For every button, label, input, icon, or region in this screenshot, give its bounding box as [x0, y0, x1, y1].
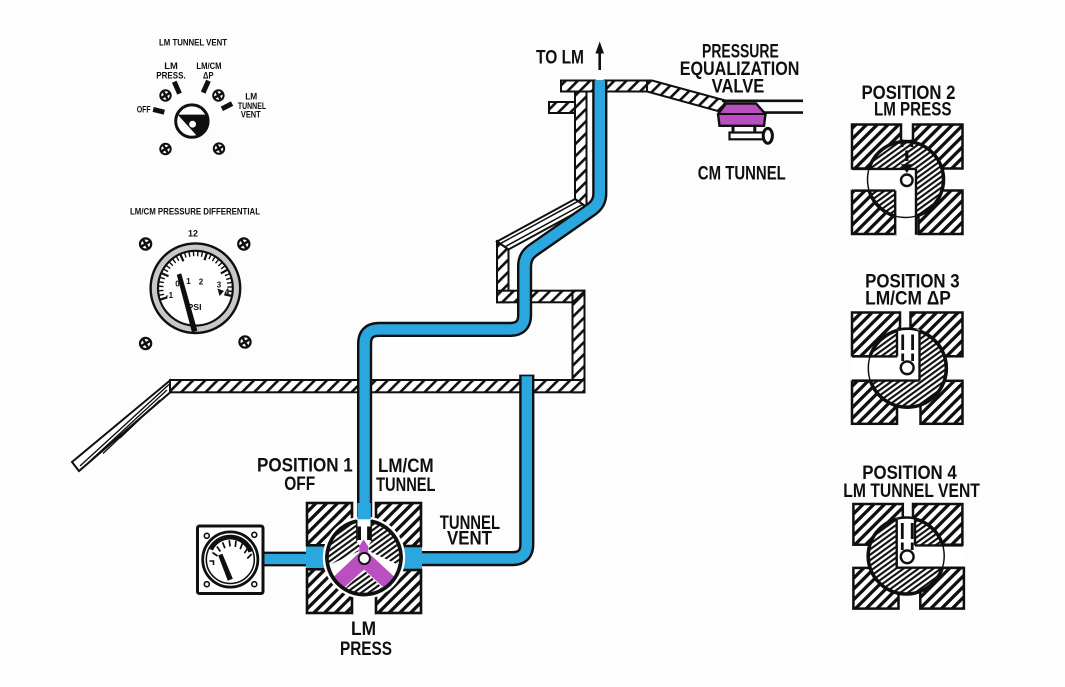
svg-text:PSI: PSI [188, 302, 202, 312]
dashed sensing lines [901, 523, 904, 539]
corner hole top-left [204, 533, 209, 538]
valve body magenta [718, 104, 766, 126]
block bottom-right [921, 381, 963, 424]
port dot [901, 361, 914, 374]
svg-text:1: 1 [186, 277, 191, 286]
body block bottom-right [376, 570, 421, 613]
passage boundary lines [852, 331, 920, 381]
svg-text:PRESS.: PRESS. [156, 70, 186, 81]
block bottom-right [919, 191, 963, 235]
white L passage horizontal arm [851, 170, 916, 190]
upper vertical tunnel wall [575, 92, 587, 208]
svg-text:OFF: OFF [284, 474, 315, 495]
screw top-right [238, 238, 249, 249]
rotor hatch bottom wedge [345, 570, 384, 595]
white passage vertical channel [897, 330, 920, 358]
right port blue [400, 546, 422, 570]
tunnel vent pipe blue [418, 376, 527, 558]
TO LM arrow [598, 51, 601, 70]
rotor circle [868, 329, 946, 407]
white L passage vertical arm [895, 190, 916, 235]
dashed sensing lines [901, 335, 904, 351]
knob pointer wedge [178, 115, 209, 137]
svg-text:VENT: VENT [241, 110, 261, 121]
svg-text:LM/CM: LM/CM [378, 456, 434, 477]
block bottom-right [920, 568, 964, 609]
screw top-left [160, 90, 170, 100]
passage boundary lines [897, 518, 963, 568]
block top-right [913, 504, 962, 545]
svg-text:-1: -1 [166, 291, 174, 300]
small flange tab [549, 102, 577, 113]
svg-text:PRESS: PRESS [340, 639, 392, 660]
screw bottom-left [140, 338, 151, 349]
body block bottom-left [307, 569, 352, 613]
gauge inner rim [158, 251, 233, 326]
valve body mid line [718, 113, 766, 115]
top-left flange wall [561, 81, 595, 92]
svg-text:TUNNEL: TUNNEL [376, 475, 436, 496]
left diagonal wing [72, 381, 170, 472]
rotor circle [327, 521, 401, 595]
svg-text:3: 3 [217, 281, 222, 290]
magenta rotor passage [333, 540, 395, 589]
main LM/CM tunnel pipe outline [365, 80, 600, 518]
svg-text:4: 4 [225, 288, 230, 297]
block top-right [913, 125, 963, 169]
dial outer circle [203, 532, 258, 587]
svg-text:LM TUNNEL VENT: LM TUNNEL VENT [159, 37, 227, 48]
gauge outer rim [151, 243, 241, 333]
gauge bezel gray ring [154, 247, 236, 329]
svg-text:VENT: VENT [447, 528, 492, 549]
top-right flange wall [605, 81, 648, 92]
svg-text:LM/CM ΔP: LM/CM ΔP [865, 289, 951, 310]
rotor ring restroke [327, 521, 401, 594]
block top-left [853, 504, 902, 545]
small tick mark left [210, 561, 214, 565]
block top-left [852, 313, 900, 357]
small gauge needle [218, 554, 233, 581]
setpoint marker near 4 [218, 289, 225, 297]
tunnel vent pipe outline [418, 375, 527, 559]
bracket legs [732, 126, 735, 133]
rotor center dot [359, 553, 370, 564]
rotary knob [176, 105, 208, 137]
thin rotor outline over passage [868, 142, 944, 218]
block top-left [852, 125, 901, 169]
svg-text:CM TUNNEL: CM TUNNEL [698, 163, 786, 184]
svg-text:LM/CM PRESSURE DIFFERENTIAL: LM/CM PRESSURE DIFFERENTIAL [130, 207, 260, 218]
screw bottom-left [160, 144, 170, 154]
corner hole bottom-left [204, 582, 209, 587]
corner hole top-right [252, 532, 257, 537]
svg-text:TO LM: TO LM [536, 47, 584, 68]
cavity right wall [573, 291, 585, 393]
body block top-right [376, 503, 421, 546]
top port pipe blue stub [357, 503, 370, 519]
tick OFF [153, 107, 165, 115]
bracket bar [730, 133, 765, 140]
rotor hatch upper-right [368, 521, 402, 566]
body block top-left [307, 503, 352, 545]
tick LM TUNNEL VENT [221, 101, 234, 111]
channel side lines [356, 520, 358, 541]
gauge needle [177, 273, 198, 332]
block bottom-left [852, 191, 896, 235]
tick LM PRESS [172, 81, 182, 95]
wing inner lines [80, 385, 169, 467]
svg-text:LM PRESS: LM PRESS [874, 100, 952, 121]
white passage vertical channel [897, 518, 915, 568]
left vertical tunnel wall [497, 242, 509, 303]
screw bottom-right [214, 143, 224, 153]
Z diagonal wall inner lines [500, 201, 578, 244]
svg-text:2: 2 [199, 278, 204, 287]
left port blue [306, 545, 328, 569]
screw bottom-right [239, 336, 250, 347]
block bottom-left [852, 381, 897, 424]
svg-text:VALVE: VALVE [712, 76, 765, 97]
screw top-left [140, 238, 151, 249]
thin rotor outline over passage [868, 518, 944, 594]
dial scale band [211, 537, 251, 552]
rotor circle [868, 142, 944, 218]
svg-text:LM: LM [351, 619, 376, 640]
svg-text:ΔP: ΔP [203, 71, 214, 82]
dial inner circle [206, 536, 254, 584]
gauge square case [198, 526, 264, 594]
rotor top channel white [357, 519, 372, 542]
CM tunnel upper line [722, 100, 803, 103]
gauge pipe outline [260, 552, 312, 567]
gauge tick marks [158, 251, 233, 300]
corner hole bottom-right [252, 582, 257, 587]
thin rotor outline over passage [868, 329, 946, 407]
bottom tunnel wall [170, 380, 585, 392]
CM tunnel lower line [758, 111, 803, 114]
dashed flow arrow [901, 140, 904, 148]
white passage horizontal band [851, 357, 920, 381]
handle ring [763, 128, 772, 143]
svg-text:OFF: OFF [137, 104, 151, 115]
svg-text:LM TUNNEL VENT: LM TUNNEL VENT [843, 481, 980, 502]
sloped wall to CM tunnel valve [647, 81, 725, 113]
main LM/CM tunnel pipe blue [365, 80, 600, 518]
gauge pipe blue [260, 554, 312, 564]
knob center dot [189, 121, 196, 128]
passage boundary lines [852, 169, 916, 235]
tick LM/CM dP [201, 80, 211, 94]
channel dash bars [358, 527, 361, 541]
screw top-right [213, 90, 223, 100]
block top-right [911, 313, 963, 357]
port dot [901, 550, 914, 563]
white passage right band [915, 546, 963, 568]
Z diagonal tunnel wall [497, 199, 587, 250]
port dot [901, 175, 913, 187]
block bottom-left [853, 568, 898, 609]
svg-text:12: 12 [188, 229, 198, 240]
rotor hatch upper-left [326, 521, 360, 566]
rotor circle [868, 518, 944, 594]
cavity top wall [497, 291, 585, 303]
dial teeth ticks [213, 540, 252, 558]
bore clearing [323, 516, 405, 598]
